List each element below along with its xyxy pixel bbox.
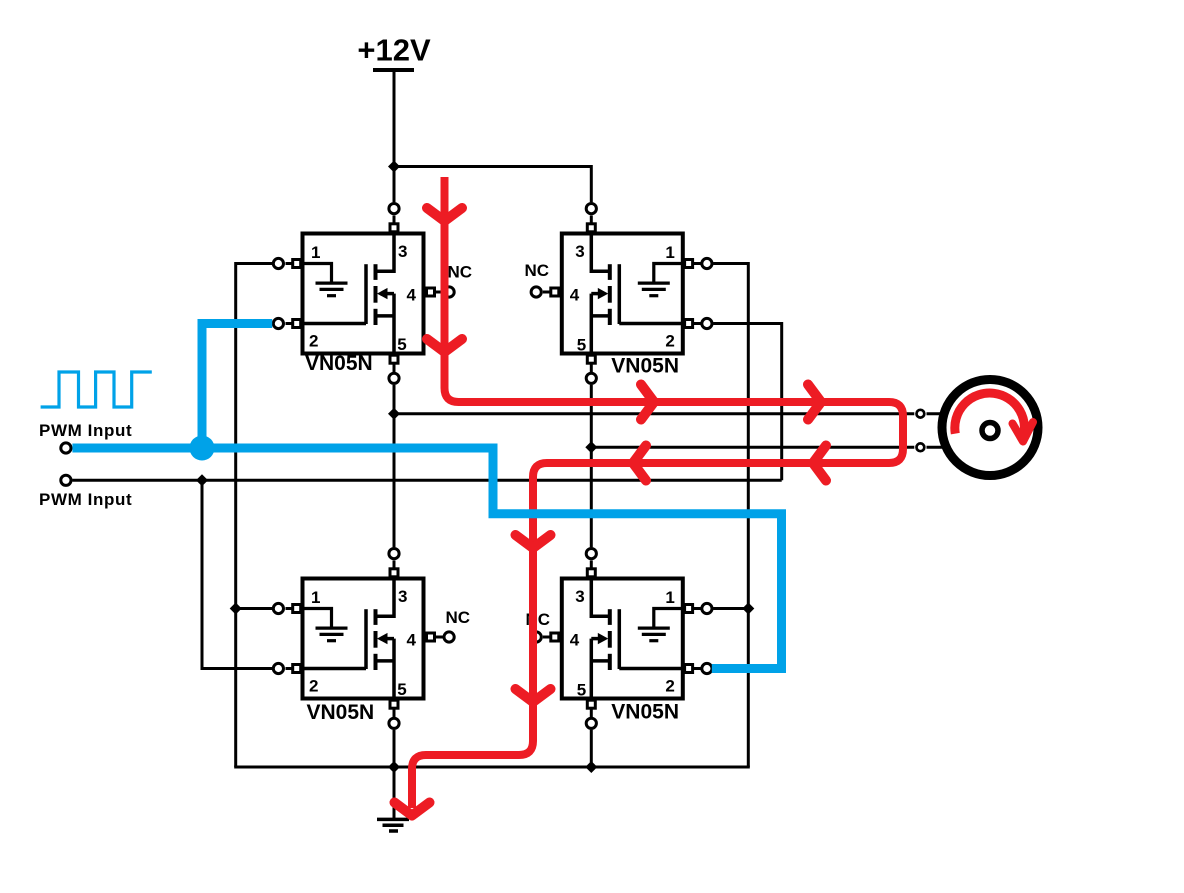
wire U3 pin5 drop [393,730,396,767]
U4 bottom-right internal ground symbol [654,609,683,628]
motor rotation arrowhead [1013,422,1034,442]
wire motor A [394,412,914,415]
U1 top-left pin 5 terminal [393,363,396,372]
wire top rail to right bridge [394,167,591,203]
U1 top-left pin 2 terminal [286,322,293,325]
wire motor A stub [927,412,945,415]
U4 bottom-right pin 4 terminal [543,636,551,639]
PWM input 1 terminal [61,443,71,453]
svg-text:NC: NC [448,263,473,282]
U2 top-right pin 3 terminal [590,216,593,224]
ground symbol [377,818,409,822]
U3 bottom-left pin 3 terminal [393,561,396,569]
junction ground column / U3 pin1 [230,603,242,615]
svg-text:1: 1 [311,588,320,607]
U2 top-right internal MOSFET [618,264,622,324]
U1 top-left internal ground symbol [303,264,332,283]
wire right bridge midpoint [590,385,593,548]
blue PWM wire main [72,448,781,669]
svg-text:1: 1 [311,243,320,262]
motor terminal top [917,410,925,418]
U4 bottom-right pin 2 terminal [693,667,701,670]
svg-text:5: 5 [577,680,586,699]
svg-text:1: 1 [665,588,674,607]
red arrow down 4 [516,689,551,702]
svg-text:+12V: +12V [357,33,431,68]
U2 top-right pin 2 terminal [693,322,701,325]
U1 top-left pin 4 terminal [435,291,445,294]
wire PWM2 riser to U2 pin2 [713,324,782,481]
red arrow right 1 [641,385,654,420]
IC U1 top-left VN05N body [303,234,424,354]
wire U4 pin5 drop [590,730,593,767]
junction left bridge / motor wire A [388,408,400,420]
U3 bottom-left pin 4 terminal [435,636,445,639]
blue junction [190,436,215,461]
U2 top-right pin 4 terminal [543,291,551,294]
U2 top-right pin 5 terminal [590,363,593,372]
motor M1 shaft [982,423,998,439]
wire PWM2 drop to U3 pin2 [202,480,272,668]
svg-text:3: 3 [575,587,584,606]
U4 bottom-right pin 5 terminal [590,708,593,717]
svg-text:4: 4 [407,630,417,649]
red arrow down 3 [516,535,551,548]
red arrow left 1 [813,446,826,481]
junction bottom bus right [585,761,597,773]
svg-text:3: 3 [398,242,407,261]
U3 bottom-left internal ground symbol [303,609,332,628]
svg-text:VN05N: VN05N [611,355,679,378]
svg-text:VN05N: VN05N [305,352,373,375]
blue PWM wire branch to U1 pin2 [202,324,272,449]
svg-text:2: 2 [665,331,674,350]
U2 top-right internal ground symbol [654,264,683,283]
svg-text:4: 4 [570,286,580,305]
+12V supply bar [373,68,414,72]
red arrow down 2 [427,339,462,352]
U4 bottom-right pin 1 terminal [693,607,701,610]
U4 bottom-right pin 3 terminal [590,561,593,569]
U1 top-left pin 1 terminal [286,262,293,265]
svg-text:1: 1 [665,243,674,262]
IC U3 bottom-left VN05N body [303,579,424,699]
junction right bridge / motor wire B [585,441,597,453]
svg-text:5: 5 [397,335,406,354]
svg-text:2: 2 [309,331,318,350]
wire motor B stub [927,446,945,449]
junction +12V rail [388,161,400,173]
red arrow into ground [395,803,430,816]
svg-text:5: 5 [577,335,586,354]
U3 bottom-left pin 2 terminal [286,667,293,670]
svg-text:4: 4 [407,285,417,304]
motor M1 body [942,380,1038,476]
svg-text:4: 4 [570,631,580,650]
red arrow right 2 [808,385,821,420]
wire left bridge midpoint [393,385,396,548]
U3 bottom-left pin 1 terminal [286,607,293,610]
IC U2 top-right VN05N body [562,234,683,354]
svg-text:3: 3 [398,587,407,606]
U4 bottom-right internal MOSFET [618,609,622,669]
PWM waveform icon [41,372,152,407]
U3 bottom-left pin 5 terminal [393,708,396,717]
wire motor B [591,446,914,449]
U2 top-right pin 1 terminal [693,262,701,265]
svg-text:3: 3 [575,242,584,261]
red arrow down 1 [427,208,462,221]
junction U4 pin1 link [742,603,754,615]
junction bottom bus left [388,761,400,773]
svg-text:2: 2 [665,676,674,695]
svg-text:NC: NC [525,261,550,280]
wire ground stem [393,767,396,819]
svg-text:NC: NC [446,608,471,627]
svg-text:PWM Input: PWM Input [39,490,132,509]
svg-text:2: 2 [309,676,318,695]
wire bottom ground bus [234,766,750,769]
svg-text:5: 5 [397,680,406,699]
U1 top-left internal MOSFET [364,264,368,324]
U1 top-left pin 3 terminal [393,216,396,224]
wire ground column [236,264,273,768]
svg-text:PWM Input: PWM Input [39,421,132,440]
motor terminal bottom [917,443,925,451]
junction PWM2 branch [196,474,208,486]
wire PWM2 run [72,479,781,482]
wire U4 pin1 link [713,607,748,610]
svg-text:VN05N: VN05N [611,701,679,724]
svg-text:VN05N: VN05N [307,701,375,724]
motor rotation arc [955,393,1025,442]
red arrow left 2 [633,446,646,481]
red current path (high-side left to low-side right) [412,177,903,808]
wire U2 pin1 drop [713,264,748,768]
wire U3 pin1 link [236,607,273,610]
U3 bottom-left internal MOSFET [364,609,368,669]
IC U4 bottom-right VN05N body [562,579,683,699]
PWM input 2 terminal [61,475,71,485]
wire +12V feed [393,72,396,202]
